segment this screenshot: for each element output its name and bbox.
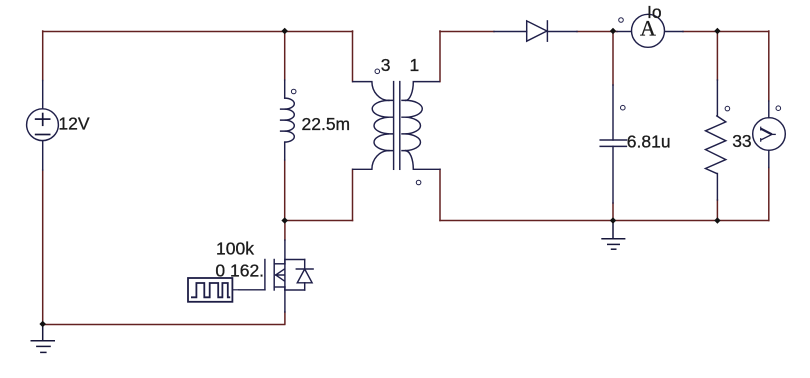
svg-text:22.5m: 22.5m (302, 114, 351, 134)
svg-text:6.81u: 6.81u (627, 132, 671, 152)
svg-text:0 162.: 0 162. (215, 261, 264, 281)
svg-text:100k: 100k (216, 239, 254, 259)
svg-text:1: 1 (410, 55, 420, 75)
svg-text:33: 33 (732, 131, 751, 151)
svg-text:Io: Io (647, 2, 662, 22)
svg-text:3: 3 (381, 55, 391, 75)
svg-text:12V: 12V (58, 113, 89, 133)
